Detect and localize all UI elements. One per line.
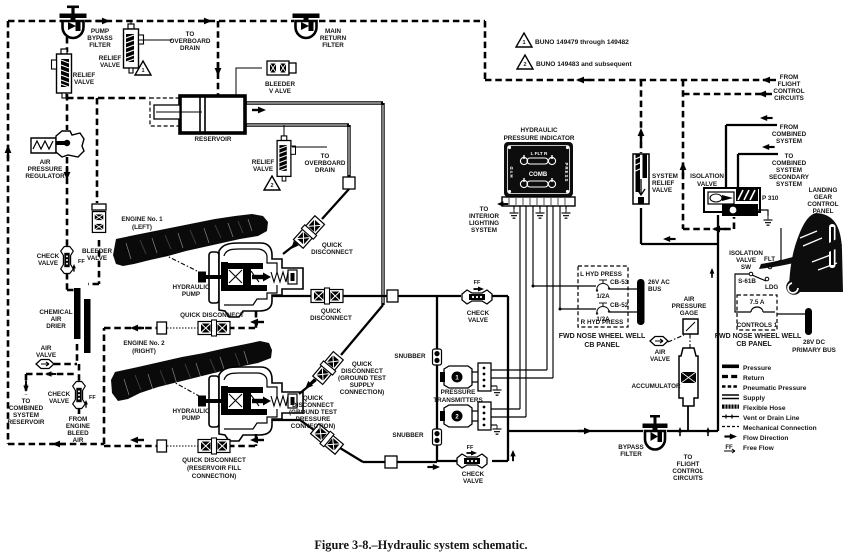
switch S-61B arm bbox=[749, 272, 753, 276]
svg-text:PRESSURE: PRESSURE bbox=[672, 303, 707, 310]
svg-text:FROM: FROM bbox=[69, 416, 88, 423]
check valve CV-T top bbox=[462, 290, 492, 304]
fuse element bbox=[740, 307, 775, 312]
svg-text:FILTER: FILTER bbox=[322, 42, 344, 49]
svg-text:Flow Direction: Flow Direction bbox=[743, 435, 788, 442]
svg-text:COMBINED: COMBINED bbox=[772, 131, 807, 138]
supply line reservoir lower bbox=[245, 125, 349, 177]
svg-text:SW: SW bbox=[741, 264, 751, 271]
svg-text:ENGINE: ENGINE bbox=[66, 423, 90, 430]
svg-text:FF: FF bbox=[725, 445, 733, 451]
svg-text:(GROUND TEST: (GROUND TEST bbox=[289, 409, 337, 416]
wire from flight control circuits upper bbox=[576, 77, 590, 84]
svg-text:P 310: P 310 bbox=[762, 195, 779, 202]
wire dashed branch to bleeder valve bbox=[96, 98, 99, 203]
flow arrow down reservoir top bbox=[215, 62, 222, 76]
svg-text:CHECK: CHECK bbox=[467, 310, 490, 317]
engine no.2 body bbox=[111, 341, 272, 401]
switch contact FLT bbox=[768, 265, 772, 269]
flow arrows fill line bbox=[130, 437, 144, 444]
svg-text:FLIGHT: FLIGHT bbox=[677, 461, 700, 468]
wire to combined system reservoir bbox=[26, 374, 77, 395]
svg-text:VALVE: VALVE bbox=[38, 260, 58, 267]
wire return line left border bbox=[8, 21, 104, 444]
svg-text:FILTER: FILTER bbox=[620, 451, 642, 458]
svg-text:BLEEDER: BLEEDER bbox=[82, 248, 113, 255]
svg-text:AIR: AIR bbox=[684, 296, 695, 303]
wire pump2 line to check valve bbox=[363, 461, 437, 463]
isolation valve bbox=[704, 188, 760, 216]
svg-text:1/2A: 1/2A bbox=[596, 293, 610, 300]
fwd nose wheel well CB panel box bbox=[578, 266, 628, 327]
svg-text:CB-52: CB-52 bbox=[610, 302, 629, 309]
note triangle BUNO 1 bbox=[516, 33, 532, 47]
svg-text:SYSTEM: SYSTEM bbox=[471, 227, 497, 234]
svg-text:VALVE: VALVE bbox=[652, 187, 672, 194]
legend mechanical connection bbox=[722, 426, 739, 428]
mechanical link gage air valve accumulator bbox=[668, 334, 690, 350]
svg-text:(RIGHT): (RIGHT) bbox=[132, 348, 156, 355]
svg-text:TO: TO bbox=[22, 398, 31, 405]
svg-text:TRANSMITTERS: TRANSMITTERS bbox=[433, 397, 482, 404]
wire bottom left border arrows bbox=[52, 441, 66, 448]
legend vent or drain line bbox=[722, 415, 739, 419]
quick disconnect QD-F reservoir fill bbox=[198, 438, 230, 454]
svg-text:FLIGHT: FLIGHT bbox=[778, 81, 801, 88]
switch contact LDG bbox=[765, 277, 769, 281]
svg-text:1: 1 bbox=[141, 68, 144, 74]
svg-text:CB PANEL: CB PANEL bbox=[736, 341, 772, 348]
svg-text:BUNO 149479 through 149482: BUNO 149479 through 149482 bbox=[535, 39, 629, 46]
svg-text:CHECK: CHECK bbox=[48, 391, 71, 398]
svg-text:FWD NOSE WHEEL WELL: FWD NOSE WHEEL WELL bbox=[715, 333, 802, 340]
relief valve RV-L bbox=[52, 49, 72, 98]
wire to combined system secondary bbox=[738, 154, 778, 188]
quick disconnect QD1B outlet bbox=[311, 288, 343, 304]
svg-text:BLEEDER: BLEEDER bbox=[265, 81, 296, 88]
wire from combined system bbox=[726, 125, 777, 188]
wire return branch second bbox=[683, 93, 767, 96]
wire engine1 case drain bbox=[104, 311, 256, 328]
svg-text:FF: FF bbox=[78, 259, 85, 265]
svg-text:VALVE: VALVE bbox=[253, 166, 273, 173]
svg-text:BYPASS: BYPASS bbox=[618, 444, 643, 451]
svg-text:BUS: BUS bbox=[648, 286, 661, 293]
svg-text:RETURN: RETURN bbox=[320, 35, 347, 42]
wire fill dotted mid bbox=[167, 445, 201, 447]
wire relief valve to isolation valve bbox=[641, 208, 718, 431]
circuit breaker CB-53 bbox=[596, 280, 610, 292]
svg-text:SYSTEM: SYSTEM bbox=[776, 138, 802, 145]
wire switch to fuse bbox=[735, 274, 749, 312]
svg-text:SECONDARY: SECONDARY bbox=[769, 174, 810, 181]
quick disconnect QD1 inlet bbox=[292, 215, 325, 249]
wire pressure manifold vertical left bbox=[437, 296, 461, 461]
flow tick arrows at accumulator line bbox=[678, 427, 682, 436]
svg-text:PUMP: PUMP bbox=[182, 291, 200, 298]
svg-text:VALVE: VALVE bbox=[49, 398, 69, 405]
ground transmitter PT2 bbox=[491, 424, 497, 426]
node drain junction box bbox=[157, 322, 167, 334]
svg-text:GAGE: GAGE bbox=[680, 310, 699, 317]
svg-text:FF: FF bbox=[474, 280, 481, 286]
svg-text:CHECK: CHECK bbox=[37, 253, 60, 260]
svg-text:DISCONNECT: DISCONNECT bbox=[311, 249, 353, 256]
wire pump1 outlet bbox=[272, 295, 437, 297]
note triangle 2 bbox=[264, 176, 280, 190]
wire to overboard drain bbox=[139, 39, 172, 41]
svg-text:CONTROLS 1: CONTROLS 1 bbox=[737, 322, 778, 329]
svg-text:FF: FF bbox=[467, 445, 474, 451]
svg-text:CB-53: CB-53 bbox=[610, 279, 629, 286]
svg-text:LDG: LDG bbox=[765, 284, 778, 291]
svg-text:Free Flow: Free Flow bbox=[743, 445, 775, 452]
wire arrow interior lighting bbox=[497, 201, 508, 206]
wire bleeder valve down bbox=[88, 240, 99, 284]
svg-text:ACCUMULATOR: ACCUMULATOR bbox=[631, 383, 681, 390]
wire return isolation valve branch bbox=[683, 80, 734, 229]
air pressure regulator bbox=[31, 131, 84, 157]
svg-text:FLT: FLT bbox=[764, 256, 775, 263]
wire engine1 drain left vertical bbox=[103, 328, 106, 444]
svg-text:RELIEF: RELIEF bbox=[252, 159, 275, 166]
check valve CV-BT bottom bbox=[457, 454, 487, 468]
wire supply diagonal to engine2 pump bbox=[299, 305, 383, 394]
svg-text:DRIER: DRIER bbox=[46, 323, 66, 330]
svg-text:VALVE: VALVE bbox=[463, 478, 483, 485]
wire drain dotted mid bbox=[167, 327, 201, 329]
svg-text:QUICK DISCONNECT: QUICK DISCONNECT bbox=[180, 312, 244, 319]
svg-text:CONTROL: CONTROL bbox=[672, 468, 703, 475]
svg-text:FF: FF bbox=[89, 395, 96, 401]
svg-text:OVERBOARD: OVERBOARD bbox=[170, 38, 211, 45]
wire supply diagonal to engine1 pump bbox=[283, 189, 349, 254]
air valve AV-1 bbox=[36, 360, 54, 369]
ground indicator terminal A bbox=[513, 206, 515, 209]
svg-text:TO: TO bbox=[186, 31, 195, 38]
check valve CV-A bbox=[61, 247, 74, 274]
svg-text:CB PANEL: CB PANEL bbox=[584, 342, 620, 349]
svg-text:FROM: FROM bbox=[780, 124, 799, 131]
svg-text:PRIMARY BUS: PRIMARY BUS bbox=[792, 347, 836, 354]
wire check valve to drier bbox=[67, 273, 76, 290]
flow arrow right on top line bbox=[96, 18, 110, 25]
wire overboard drain pointer bbox=[292, 146, 327, 148]
flow arrows drain line bbox=[130, 325, 144, 332]
svg-text:CONNECTION): CONNECTION) bbox=[192, 473, 236, 480]
svg-text:CONNECTION): CONNECTION) bbox=[340, 389, 384, 396]
svg-text:ISOLATION: ISOLATION bbox=[729, 250, 763, 257]
svg-text:(RESERVOIR FILL: (RESERVOIR FILL bbox=[187, 465, 241, 472]
note triangle BUNO 2 bbox=[517, 55, 533, 69]
svg-text:COMBINED: COMBINED bbox=[772, 160, 807, 167]
svg-text:HYDRAULIC: HYDRAULIC bbox=[172, 408, 210, 415]
legend pneumatic pressure bbox=[722, 385, 739, 387]
quick disconnect QD2B outlet (ground test pressure) bbox=[310, 423, 345, 456]
svg-text:H Y D: H Y D bbox=[509, 166, 514, 177]
bleeder valve B1 bbox=[267, 61, 289, 75]
node supply junction box upper bbox=[343, 177, 355, 189]
28V DC primary bus bar bbox=[805, 308, 812, 335]
note triangle 1 bbox=[135, 61, 151, 75]
svg-text:BYPASS: BYPASS bbox=[87, 35, 112, 42]
supply line reservoir upper bbox=[245, 103, 383, 305]
svg-text:FROM: FROM bbox=[780, 74, 799, 81]
wire pump2 outlet diagonal bbox=[272, 420, 363, 462]
pump bypass filter bbox=[60, 6, 87, 39]
bypass filter bbox=[643, 415, 668, 450]
svg-text:BLEED: BLEED bbox=[67, 430, 89, 437]
svg-text:L FLT R: L FLT R bbox=[531, 151, 548, 156]
svg-text:REGULATOR: REGULATOR bbox=[25, 173, 65, 180]
svg-text:VALVE: VALVE bbox=[468, 317, 488, 324]
26V AC bus bar bbox=[637, 279, 645, 325]
flow arrow right on top line 2 bbox=[198, 18, 212, 25]
wire reservoir fill line bbox=[104, 434, 256, 446]
svg-text:S-61B: S-61B bbox=[738, 278, 756, 285]
svg-text:MAIN: MAIN bbox=[325, 28, 342, 35]
svg-text:Pneumatic Pressure: Pneumatic Pressure bbox=[743, 385, 807, 392]
legend return bbox=[722, 375, 739, 378]
wire return line top bbox=[8, 21, 767, 80]
svg-text:QUICK: QUICK bbox=[321, 308, 342, 315]
ground indicator terminal B bbox=[539, 206, 541, 209]
svg-text:QUICK: QUICK bbox=[352, 361, 373, 368]
svg-text:Vent or Drain Line: Vent or Drain Line bbox=[743, 415, 800, 422]
svg-text:VALVE: VALVE bbox=[36, 352, 56, 359]
node junction box pump2 line bbox=[385, 456, 397, 468]
svg-text:SYSTEM: SYSTEM bbox=[776, 167, 802, 174]
svg-text:L HYD PRESS: L HYD PRESS bbox=[580, 271, 622, 278]
svg-text:VALVE: VALVE bbox=[736, 257, 756, 264]
wire breakers to bus bbox=[609, 289, 638, 312]
svg-text:SNUBBER: SNUBBER bbox=[392, 432, 424, 439]
wire pneumatic down from regulator bbox=[66, 157, 69, 247]
svg-text:FILTER: FILTER bbox=[89, 42, 111, 49]
svg-text:DISCONNECT: DISCONNECT bbox=[341, 368, 383, 375]
accumulator bbox=[679, 348, 698, 431]
svg-text:DRAIN: DRAIN bbox=[315, 167, 335, 174]
node fill junction box bbox=[157, 440, 167, 452]
flow arrow up on left border bbox=[5, 145, 12, 159]
mechanical link engine1 to pump1 bbox=[163, 254, 199, 272]
legend supply bbox=[722, 395, 739, 399]
check valve CV-B bbox=[78, 364, 81, 382]
svg-text:OVERBOARD: OVERBOARD bbox=[305, 160, 346, 167]
svg-text:COMB: COMB bbox=[529, 172, 548, 178]
svg-text:QUICK DISCONNECT: QUICK DISCONNECT bbox=[182, 457, 246, 464]
svg-text:CIRCUITS: CIRCUITS bbox=[673, 475, 703, 482]
svg-text:CHEMICAL: CHEMICAL bbox=[39, 309, 72, 316]
relief valve RV-T top bbox=[130, 21, 132, 28]
svg-text:LANDING: LANDING bbox=[809, 187, 838, 194]
svg-text:VALVE: VALVE bbox=[650, 356, 670, 363]
svg-text:Flexible Hose: Flexible Hose bbox=[743, 405, 786, 412]
svg-text:26V AC: 26V AC bbox=[648, 279, 670, 286]
reservoir piston housing bbox=[150, 98, 180, 126]
quick disconnect QD2 inlet (ground test supply) bbox=[312, 351, 345, 386]
svg-text:AIR: AIR bbox=[40, 159, 51, 166]
svg-text:PRESSURE INDICATOR: PRESSURE INDICATOR bbox=[504, 135, 575, 142]
engine no.1 body bbox=[113, 214, 268, 266]
node junction box pump1 line bbox=[387, 290, 398, 302]
svg-text:SUPPLY: SUPPLY bbox=[350, 382, 375, 389]
wire pressure manifold vertical right bbox=[437, 296, 508, 461]
snubber SN2 bbox=[433, 429, 442, 445]
mechanical link engine2 to pump2 bbox=[170, 380, 199, 396]
svg-text:FWD NOSE WHEEL WELL: FWD NOSE WHEEL WELL bbox=[559, 333, 646, 340]
legend pressure bbox=[722, 365, 739, 369]
wire bundle indicator to transmitters bbox=[491, 206, 560, 417]
svg-text:VALVE: VALVE bbox=[697, 181, 717, 188]
fuse panel dashed box bbox=[737, 295, 777, 330]
svg-text:LIGHTING: LIGHTING bbox=[469, 220, 499, 227]
svg-text:ENGINE No. 2: ENGINE No. 2 bbox=[123, 340, 165, 347]
svg-text:DISCONNECT: DISCONNECT bbox=[292, 402, 334, 409]
legend flexible hose bbox=[722, 405, 739, 409]
svg-text:28V DC: 28V DC bbox=[803, 339, 826, 346]
svg-text:CONNECTION): CONNECTION) bbox=[291, 423, 335, 430]
wire fuse to DC bus bbox=[777, 313, 806, 315]
svg-text:P R E S S: P R E S S bbox=[564, 163, 569, 182]
reservoir body bbox=[180, 96, 245, 133]
wire return to system relief valve bbox=[640, 80, 643, 153]
svg-text:V ALVE: V ALVE bbox=[269, 88, 291, 95]
svg-text:Pressure: Pressure bbox=[743, 365, 772, 372]
svg-text:SYSTEM: SYSTEM bbox=[652, 173, 678, 180]
bleeder valve B2 bbox=[92, 212, 105, 233]
svg-text:BUNO 149483 and subsequent: BUNO 149483 and subsequent bbox=[536, 61, 632, 68]
wire dashed reservoir top bbox=[217, 21, 220, 95]
svg-text:Return: Return bbox=[743, 375, 764, 382]
svg-text:RELIEF: RELIEF bbox=[99, 55, 122, 62]
svg-text:SYSTEM: SYSTEM bbox=[13, 412, 39, 419]
landing gear control panel bbox=[759, 213, 843, 295]
svg-text:GEAR: GEAR bbox=[814, 194, 833, 201]
svg-text:HYDRAULIC: HYDRAULIC bbox=[172, 284, 210, 291]
legend flow direction bbox=[724, 433, 737, 439]
svg-text:7.5 A: 7.5 A bbox=[750, 299, 765, 306]
svg-text:RESERVOIR: RESERVOIR bbox=[195, 136, 232, 143]
pressure transmitter PT2 bbox=[440, 402, 491, 430]
svg-text:PUMP: PUMP bbox=[91, 28, 109, 35]
svg-text:TO: TO bbox=[684, 454, 693, 461]
svg-text:2: 2 bbox=[270, 183, 273, 189]
svg-text:Figure 3-8.–Hydraulic system s: Figure 3-8.–Hydraulic system schematic. bbox=[314, 538, 527, 552]
svg-text:TO: TO bbox=[480, 206, 489, 213]
air pressure gage bbox=[683, 319, 698, 334]
svg-text:CONTROL: CONTROL bbox=[807, 201, 838, 208]
ground indicator terminal C bbox=[565, 206, 567, 209]
svg-text:QUICK: QUICK bbox=[322, 242, 343, 249]
hydraulic pump P1 bbox=[198, 243, 303, 317]
svg-text:Supply: Supply bbox=[743, 395, 765, 402]
svg-text:INTERIOR: INTERIOR bbox=[469, 213, 500, 220]
svg-text:Mechanical Connection: Mechanical Connection bbox=[743, 425, 817, 432]
svg-text:ENGINE No. 1: ENGINE No. 1 bbox=[121, 216, 163, 223]
chemical air drier bbox=[74, 288, 81, 339]
flow arrow up right vertical bbox=[510, 450, 515, 461]
svg-text:COMBINED: COMBINED bbox=[9, 405, 44, 412]
svg-text:QUICK: QUICK bbox=[303, 395, 324, 402]
svg-text:RELIEF: RELIEF bbox=[73, 72, 96, 79]
svg-text:1: 1 bbox=[522, 40, 525, 46]
system relief valve bbox=[633, 154, 649, 204]
svg-text:VALVE: VALVE bbox=[74, 79, 94, 86]
svg-text:R HYD PRESS: R HYD PRESS bbox=[581, 319, 624, 326]
svg-text:AIR: AIR bbox=[41, 345, 52, 352]
ground isolation valve bbox=[758, 210, 768, 216]
svg-text:DISCONNECT: DISCONNECT bbox=[310, 315, 352, 322]
hydraulic pump P2 bbox=[198, 367, 303, 441]
svg-text:PRESSURE: PRESSURE bbox=[28, 166, 63, 173]
circuit breaker CB-52 bbox=[596, 303, 610, 315]
air valve AV-2 bbox=[650, 337, 668, 346]
svg-text:CONTROL: CONTROL bbox=[773, 88, 804, 95]
wire filter to relief valve bbox=[66, 37, 69, 52]
svg-text:AIR: AIR bbox=[51, 316, 62, 323]
wire drier to air valve bbox=[54, 344, 77, 364]
svg-text:ISOLATION: ISOLATION bbox=[690, 173, 724, 180]
svg-text:RESERVOIR: RESERVOIR bbox=[8, 419, 45, 426]
main return filter bbox=[293, 14, 320, 39]
wire breaker feed L bbox=[533, 285, 596, 287]
svg-text:CHECK: CHECK bbox=[462, 471, 485, 478]
svg-text:TO: TO bbox=[321, 153, 330, 160]
svg-text:SYSTEM: SYSTEM bbox=[776, 181, 802, 188]
svg-text:PRESSURE: PRESSURE bbox=[441, 389, 476, 396]
svg-text:VALVE: VALVE bbox=[87, 255, 107, 262]
svg-text:HYDRAULIC: HYDRAULIC bbox=[520, 127, 558, 134]
pressure transmitter PT1 bbox=[440, 363, 491, 391]
svg-text:SNUBBER: SNUBBER bbox=[394, 353, 426, 360]
wire solenoid to switch bbox=[772, 228, 781, 265]
relief valve RV-R reservoir bbox=[283, 125, 285, 139]
svg-text:VALVE: VALVE bbox=[100, 62, 120, 69]
wire return dashed into reservoir bbox=[67, 94, 150, 130]
svg-text:(LEFT): (LEFT) bbox=[132, 224, 152, 231]
svg-text:AIR: AIR bbox=[73, 437, 84, 444]
wire breaker feed R bbox=[560, 308, 596, 310]
svg-text:AIR: AIR bbox=[655, 349, 666, 356]
quick disconnect QD-D drain bbox=[198, 320, 230, 336]
wire bleeder valve to reservoir bbox=[236, 68, 262, 96]
svg-text:(GROUND TEST: (GROUND TEST bbox=[338, 375, 386, 382]
svg-text:2: 2 bbox=[523, 62, 526, 68]
wire pressure to bypass filter bbox=[508, 430, 718, 432]
hydraulic pressure indicator panel bbox=[502, 142, 575, 206]
svg-text:TO: TO bbox=[785, 153, 794, 160]
svg-text:RELIEF: RELIEF bbox=[652, 180, 675, 187]
svg-text:PUMP: PUMP bbox=[182, 415, 200, 422]
snubber SN1 bbox=[433, 349, 442, 365]
flow arrow bottom line bbox=[427, 464, 440, 470]
svg-text:CIRCUITS: CIRCUITS bbox=[774, 95, 804, 102]
ground transmitter PT1 bbox=[491, 385, 497, 387]
svg-text:DRAIN: DRAIN bbox=[180, 45, 200, 52]
svg-text:PRESSURE: PRESSURE bbox=[296, 416, 331, 423]
